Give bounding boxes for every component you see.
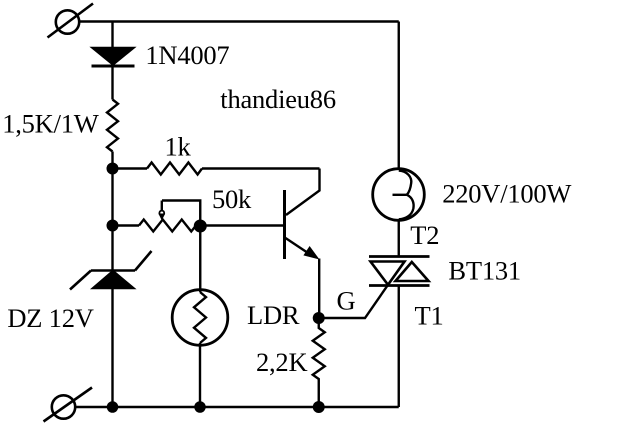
svg-text:BT131: BT131 — [448, 256, 521, 286]
svg-text:T2: T2 — [410, 220, 439, 250]
zener diode DZ 12V — [70, 251, 152, 290]
wire: node A to R2 left — [113, 167, 148, 169]
wire: wiper rail over to node C — [162, 201, 200, 227]
lamp LA1 220V/100W — [373, 169, 425, 221]
svg-text:50k: 50k — [212, 184, 252, 214]
resistor R2 1k (horizontal zigzag) — [147, 163, 202, 175]
wire: triac T1 down to bottom rail — [398, 286, 400, 408]
node C junction dot — [194, 220, 207, 233]
svg-text:thandieu86: thandieu86 — [220, 84, 336, 114]
wire: emitter down to node G — [318, 259, 320, 319]
AC input terminal (top-left) — [48, 4, 94, 38]
svg-text:220V/100W: 220V/100W — [442, 179, 571, 209]
wire: bottom rail — [75, 406, 399, 408]
svg-text:G: G — [337, 286, 356, 316]
wire: R1 bottom to node A — [111, 152, 113, 169]
transistor Q1 emitter with arrow — [286, 238, 320, 260]
node A junction dot — [107, 163, 119, 175]
svg-text:1,5K/1W: 1,5K/1W — [2, 109, 99, 139]
svg-text:1k: 1k — [165, 132, 192, 162]
wire: right rail down to lamp — [398, 22, 400, 170]
wire: zener anode down to bottom rail — [111, 289, 113, 408]
wire: node B down to zener cathode — [111, 226, 113, 271]
triac U1 BT131 — [369, 257, 430, 286]
junction dot bottom-left branch — [107, 401, 119, 413]
wire: top rail from terminal to right branch — [79, 20, 399, 22]
wire: R2 right to collector drop — [202, 167, 320, 169]
wire: gate lead from node G to triac — [319, 285, 388, 318]
AC return terminal (bottom-left) — [44, 388, 93, 422]
svg-text:2,2K: 2,2K — [256, 347, 307, 377]
wire: node A down to node B — [111, 169, 113, 226]
wire: diode anode stem — [111, 22, 113, 49]
svg-text:1N4007: 1N4007 — [145, 40, 229, 70]
transistor Q1 collector — [286, 169, 320, 216]
LDR (photoresistor) — [172, 290, 228, 346]
junction dot bottom R3 branch — [313, 401, 325, 413]
node G junction dot — [313, 312, 325, 324]
potentiometer VR1 wiper arrow — [158, 201, 165, 221]
svg-text:DZ 12V: DZ 12V — [7, 303, 93, 333]
wire: LDR bottom to bottom rail — [199, 343, 201, 407]
transistor Q1 base bar — [283, 190, 286, 259]
wire: lamp to triac T2 — [398, 220, 400, 256]
svg-text:T1: T1 — [415, 301, 444, 331]
node B junction dot — [107, 220, 119, 232]
resistor R3 2,2K (vertical zigzag) — [313, 318, 325, 407]
resistor R1 1,5K/1W (vertical zigzag) — [107, 100, 118, 152]
potentiometer VR1 50k body (zigzag) — [139, 220, 196, 232]
junction dot bottom LDR branch — [194, 401, 206, 413]
wire: node C down to LDR top — [199, 226, 201, 292]
diode D1 1N4007 — [92, 48, 135, 67]
svg-text:LDR: LDR — [247, 300, 300, 330]
wire: node C to transistor base — [200, 224, 283, 226]
wire: diode cathode to R1 — [111, 66, 113, 100]
wire: node B to potentiometer left — [113, 224, 140, 226]
